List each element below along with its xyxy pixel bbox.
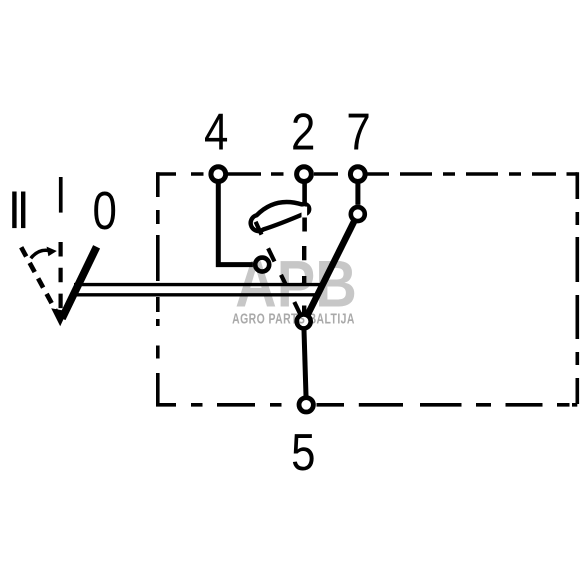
wire from terminal 7 down: [355, 184, 360, 205]
lever position II (dashed): [21, 247, 57, 313]
terminal 2 circle: [297, 167, 312, 182]
white notch for wire gap at bridge right end: [302, 207, 308, 218]
enclosure dash-dot border left: [156, 172, 160, 404]
bridge contact capsule: [251, 202, 310, 231]
svg-text:AGRO PARTS BALTIJA: AGRO PARTS BALTIJA: [232, 311, 355, 327]
label II bar 2: [21, 192, 25, 229]
svg-text:7: 7: [346, 104, 370, 161]
terminal 4 circle: [211, 167, 226, 182]
enclosure dash-dot border bottom: [156, 403, 577, 407]
svg-text:4: 4: [204, 104, 228, 161]
terminal 7 circle: [350, 167, 365, 182]
pivot node: [297, 314, 311, 328]
label II bar 1: [12, 192, 16, 229]
contact node below 7: [351, 207, 365, 221]
moving contact arm (7 to pivot): [308, 221, 355, 315]
actuator link double line lower: [73, 293, 318, 296]
lever position 0 (solid): [62, 247, 97, 319]
svg-text:2: 2: [291, 104, 315, 161]
enclosure dash-dot border right: [575, 172, 579, 404]
enclosure dash-dot border top: [156, 172, 577, 176]
curved arrow head: [47, 247, 57, 257]
terminal 5 circle: [299, 398, 313, 412]
curved arrow II to I: [31, 250, 48, 258]
svg-text:5: 5: [291, 425, 315, 482]
wire stub from terminal 2 down (passes under bridge contact): [302, 184, 307, 232]
label I: [59, 177, 63, 213]
watermark APB logo: [232, 248, 357, 327]
dashed alternate contact line (capsule to pivot): [256, 222, 301, 315]
actuator link double line upper: [74, 283, 323, 286]
wire from terminal 4 down and right to fixed contact: [218, 184, 253, 265]
svg-text:0: 0: [93, 182, 117, 241]
fixed contact node (from 4): [255, 258, 269, 272]
dashed wire from terminal 2 to pivot: [302, 246, 306, 313]
wire pivot to terminal 5: [304, 330, 306, 396]
lever position I (dashed): [58, 242, 62, 310]
lever arrowhead: [51, 308, 67, 326]
